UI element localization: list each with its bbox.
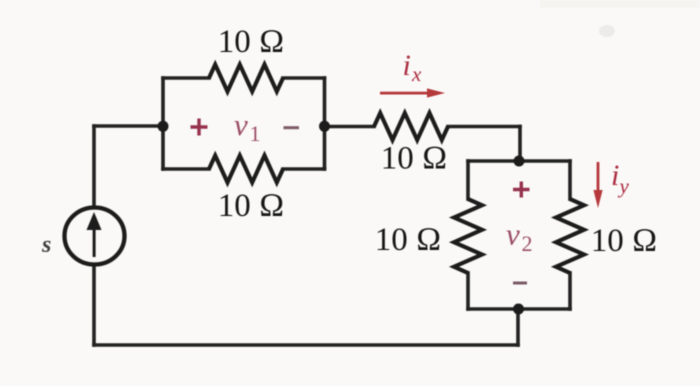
current arrow i_x [380, 88, 445, 97]
junction dot: bottom node of v2 pair [513, 304, 524, 315]
svg-text:v: v [234, 107, 248, 142]
junction dot: top node of v2 pair [514, 156, 525, 167]
wire: left node to left drop [94, 124, 163, 128]
wire: v1 box top-left lead [163, 76, 209, 80]
wire: right box left branch upper lead [466, 161, 470, 199]
resistor R4 zigzag (left vertical 10 ohm) [454, 199, 482, 273]
wire: left drop to current source top [92, 126, 96, 207]
wire: v1 box left vertical [161, 78, 165, 169]
wire: right node to series resistor [325, 125, 375, 129]
svg-text:2: 2 [522, 231, 533, 256]
wire: right box right branch lower lead [568, 273, 572, 309]
wire: right box right branch upper lead [568, 161, 572, 199]
wire: v1 box bottom-left lead [163, 167, 209, 171]
wire: current source bottom to bottom rail [92, 265, 96, 345]
svg-text:10 Ω: 10 Ω [591, 223, 658, 259]
svg-text:s: s [41, 232, 51, 258]
svg-text:x: x [411, 62, 422, 86]
wire: v1 box right vertical [323, 78, 327, 169]
svg-text:i: i [403, 49, 411, 82]
wire: v1 box top-right lead [283, 76, 325, 80]
wire: right box left branch lower lead [466, 273, 470, 309]
wire: right box bottom side [468, 307, 570, 311]
current source S arrow [87, 212, 102, 257]
voltage v2 minus sign [513, 282, 527, 285]
wire: right box top side [468, 159, 570, 163]
svg-text:10 Ω: 10 Ω [375, 222, 442, 258]
resistor R2 zigzag (bottom 10 ohm of v1 pair) [209, 156, 283, 183]
voltage v1 minus sign [284, 126, 300, 129]
resistor R3 zigzag (series 10 ohm) [374, 113, 448, 140]
svg-text:10 Ω: 10 Ω [218, 24, 285, 60]
svg-text:i: i [611, 159, 619, 192]
voltage v2 plus sign [513, 182, 530, 198]
resistor R1 zigzag (top 10 ohm of v1 pair) [209, 65, 283, 92]
wire: corner drop to right box top [518, 127, 522, 162]
current arrow i_y [593, 162, 602, 208]
svg-text:v: v [506, 217, 520, 252]
svg-text:10 Ω: 10 Ω [218, 188, 285, 224]
junction dot: left node of v1 pair [158, 121, 169, 132]
junction dot: right node of v1 pair [319, 121, 330, 132]
svg-text:10 Ω: 10 Ω [381, 141, 448, 177]
wire: v1 box bottom-right lead [283, 167, 325, 171]
wire: series resistor to top-right corner [448, 125, 520, 129]
wire: bottom rail [94, 343, 518, 347]
scan smudge artifact top right [540, 0, 700, 37]
voltage v1 plus sign [191, 119, 208, 136]
svg-text:1: 1 [250, 121, 261, 146]
resistor R5 zigzag (right vertical 10 ohm) [556, 199, 584, 273]
wire: bottom rail riser to right box [516, 309, 520, 345]
svg-text:y: y [618, 174, 630, 198]
current source S circle [65, 208, 125, 265]
